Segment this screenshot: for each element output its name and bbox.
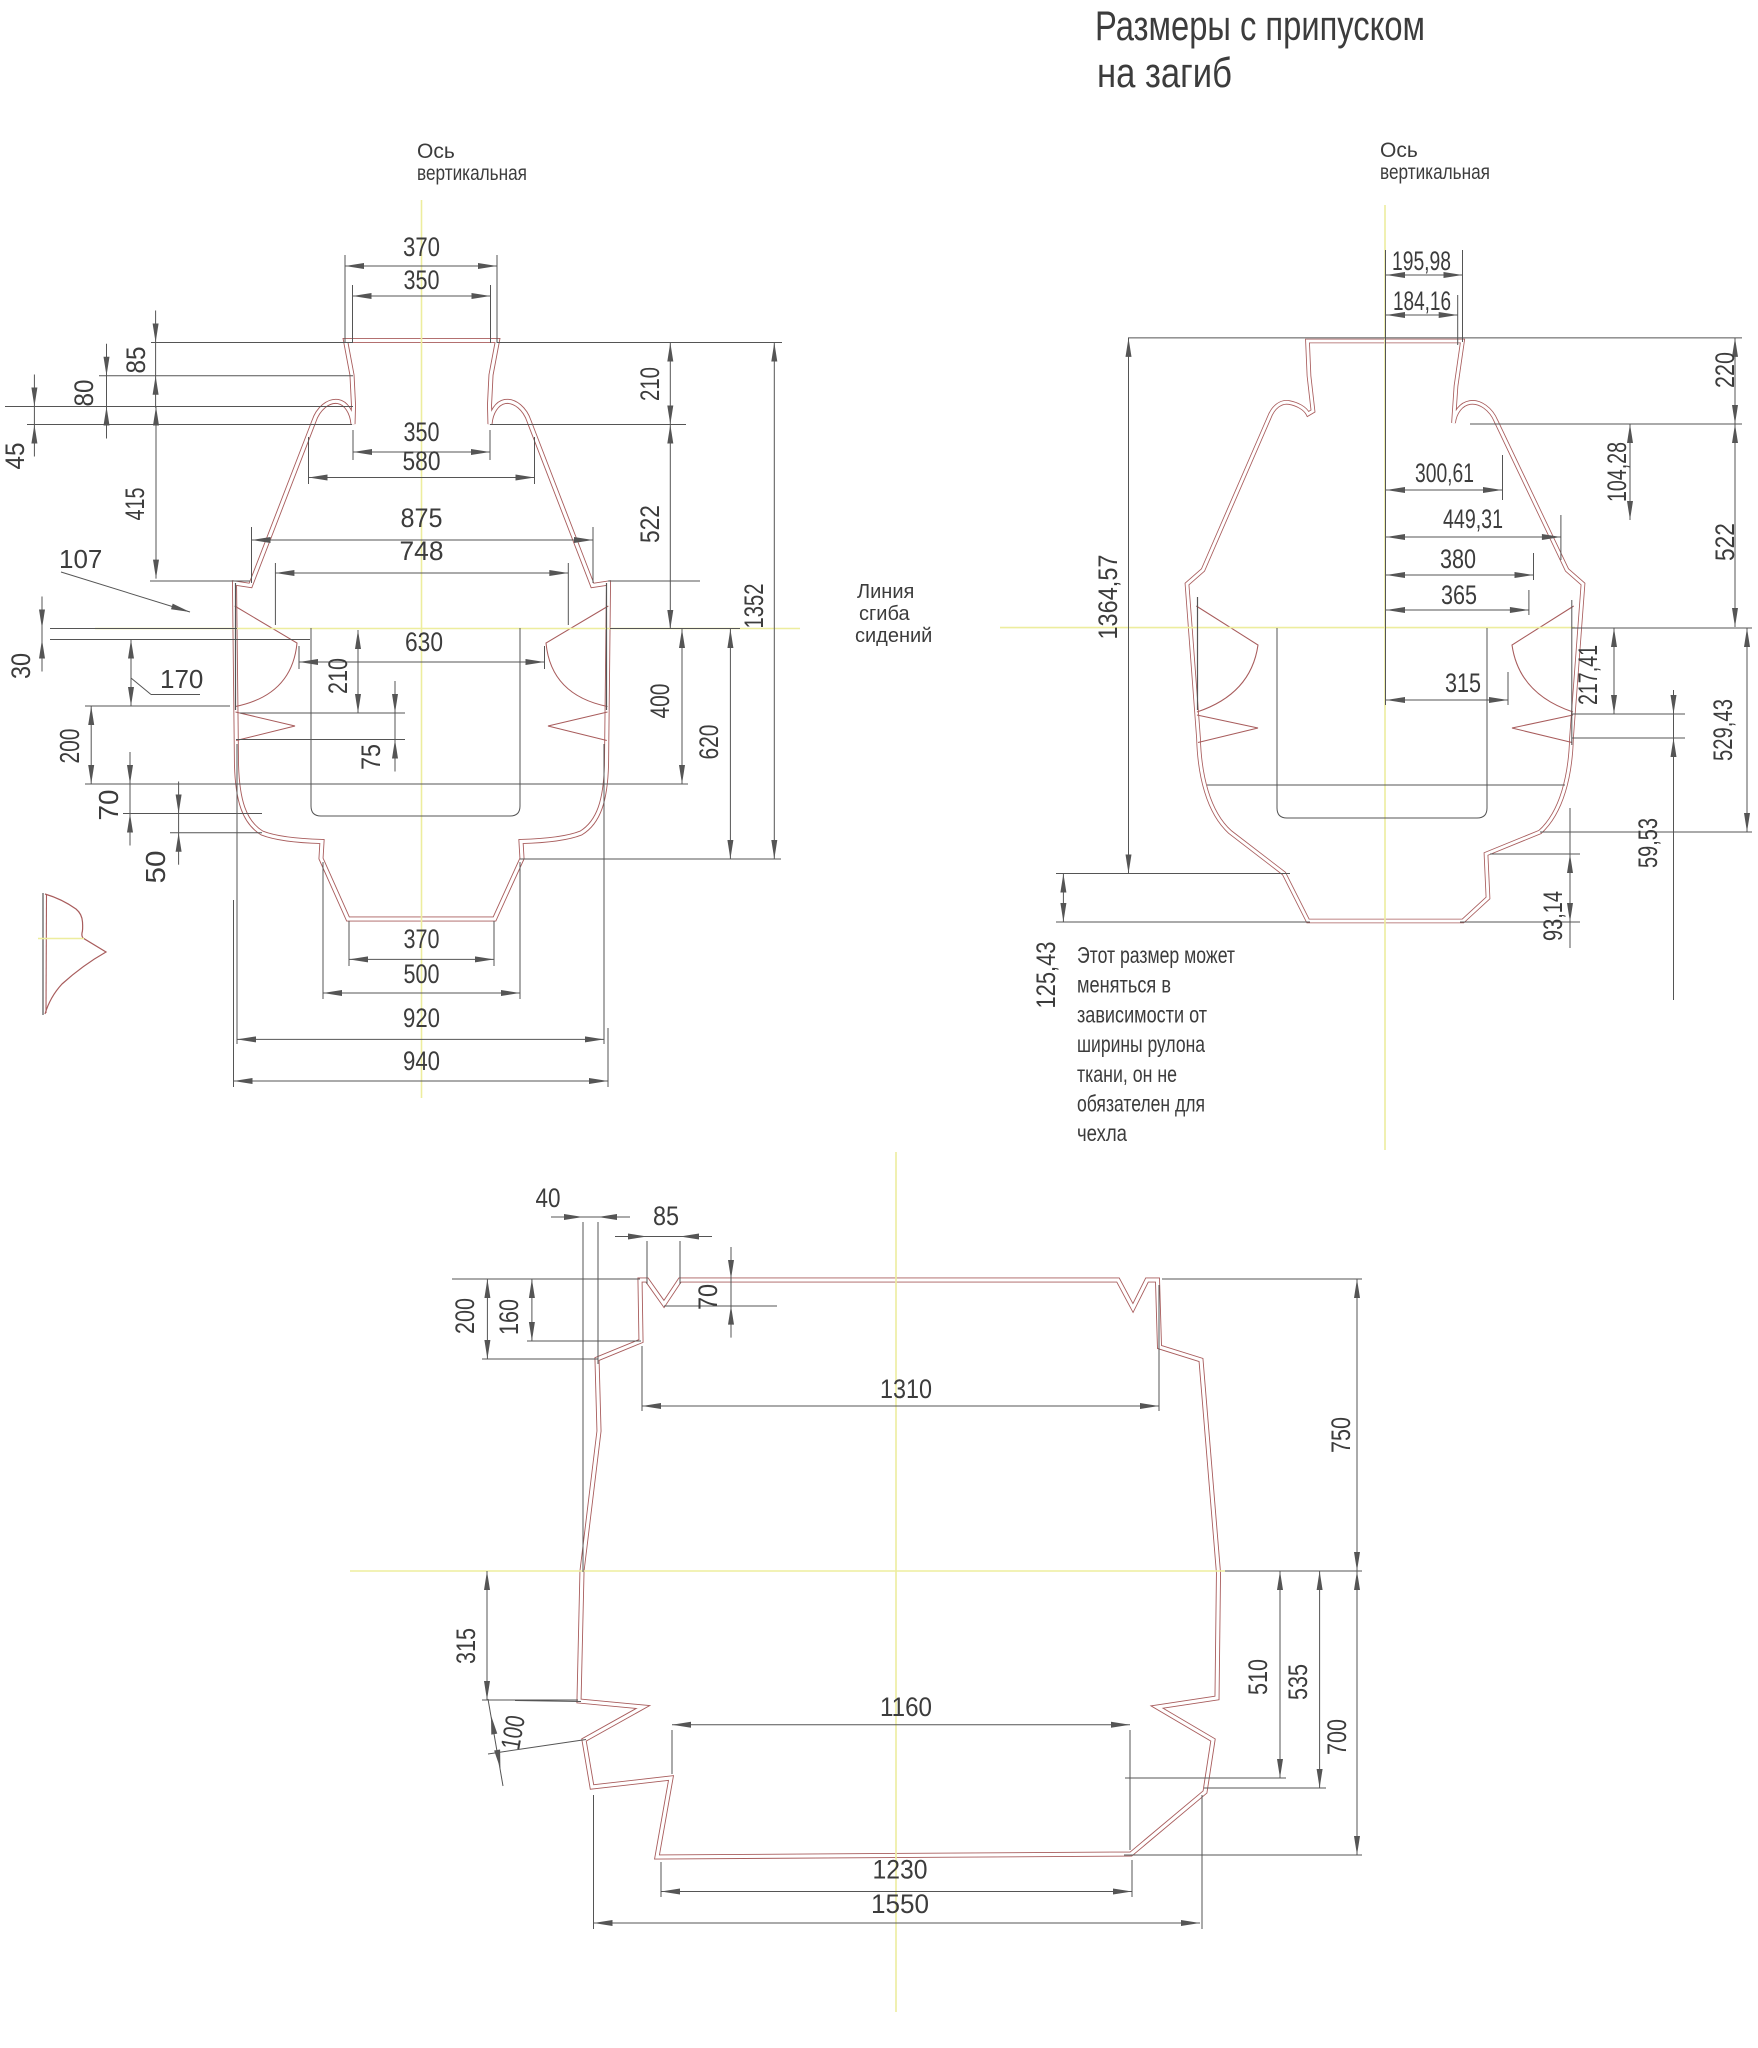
dim 184,16 — [1386, 314, 1458, 316]
dim 875 — [252, 539, 594, 541]
svg-text:630: 630 — [405, 627, 443, 657]
dim 200 bottom — [486, 1279, 488, 1359]
dim 522 rp — [1734, 424, 1736, 627]
right pattern inner panel — [1277, 628, 1487, 818]
svg-text:Ось: Ось — [417, 140, 455, 163]
dim 1160 — [672, 1724, 1130, 1726]
dim 75 inner — [394, 713, 396, 740]
svg-text:Размеры с припуском: Размеры с припуском — [1095, 2, 1425, 49]
svg-text:зависимости от: зависимости от — [1077, 1001, 1207, 1027]
left pattern vertical axis — [421, 200, 423, 1098]
svg-text:сгиба: сгиба — [859, 603, 910, 625]
svg-text:вертикальная: вертикальная — [1380, 161, 1490, 184]
svg-text:200: 200 — [450, 1298, 480, 1334]
svg-text:940: 940 — [403, 1046, 440, 1076]
svg-text:1230: 1230 — [873, 1855, 928, 1885]
svg-text:1310: 1310 — [880, 1374, 932, 1404]
svg-text:чехла: чехла — [1077, 1120, 1127, 1146]
right pattern outline — [1187, 341, 1583, 921]
svg-text:522: 522 — [635, 505, 665, 543]
svg-text:104,28: 104,28 — [1602, 442, 1632, 502]
dim 70 left — [129, 784, 131, 814]
dim 449,31 — [1386, 536, 1561, 538]
dim 59,53 — [1673, 690, 1675, 1000]
dim 350 neck — [353, 451, 490, 453]
dim 50 left — [178, 814, 180, 833]
svg-text:300,61: 300,61 — [1415, 458, 1474, 488]
dim 210 right — [669, 343, 671, 425]
dim 350 top — [353, 295, 491, 297]
left pattern right dart — [546, 606, 608, 741]
svg-text:220: 220 — [1710, 352, 1740, 388]
dim 748 — [275, 572, 568, 574]
svg-text:920: 920 — [403, 1003, 440, 1033]
small crescent piece — [42, 893, 44, 1015]
svg-text:75: 75 — [356, 744, 386, 770]
left pattern inner panel — [311, 628, 520, 816]
dim 93,14 — [1571, 600, 1573, 745]
dim 70 bottom — [730, 1279, 732, 1306]
svg-text:748: 748 — [400, 536, 444, 566]
svg-text:875: 875 — [401, 503, 443, 533]
dim 380 — [1386, 574, 1534, 576]
right pattern right dart — [1512, 606, 1574, 743]
dim 535 — [1319, 1571, 1321, 1788]
svg-text:210: 210 — [635, 367, 665, 401]
svg-text:750: 750 — [1326, 1417, 1356, 1453]
left pattern left dart — [235, 606, 297, 741]
svg-text:80: 80 — [69, 380, 99, 407]
svg-text:350: 350 — [404, 417, 440, 447]
svg-text:184,16: 184,16 — [1393, 286, 1451, 316]
dim 920 bottom — [237, 1038, 604, 1040]
svg-text:ткани, он не: ткани, он не — [1077, 1061, 1177, 1087]
left ear mark — [235, 583, 237, 710]
svg-text:меняться в: меняться в — [1077, 972, 1171, 998]
svg-text:195,98: 195,98 — [1392, 246, 1451, 276]
right pattern left dart — [1196, 606, 1258, 743]
svg-text:535: 535 — [1283, 1664, 1313, 1700]
dim 1364,57 — [1128, 338, 1130, 874]
right pattern fold line — [1000, 627, 1575, 629]
svg-text:100: 100 — [495, 1713, 530, 1752]
dim 1230 — [661, 1891, 1132, 1893]
svg-text:45: 45 — [0, 443, 30, 470]
right ear mark — [606, 583, 608, 710]
svg-text:370: 370 — [404, 924, 440, 954]
svg-text:315: 315 — [1445, 668, 1481, 698]
dim 630 — [299, 661, 545, 663]
svg-text:Линия: Линия — [857, 581, 914, 603]
dim 200 left — [90, 706, 92, 784]
dim 170 left — [130, 640, 132, 707]
dim 1550 — [594, 1922, 1201, 1924]
extension lines bottom pattern — [582, 1222, 584, 1572]
svg-text:70: 70 — [93, 790, 124, 821]
svg-text:125,43: 125,43 — [1031, 942, 1061, 1009]
dim 510 — [1279, 1571, 1281, 1778]
svg-text:107: 107 — [59, 544, 102, 574]
svg-text:500: 500 — [404, 959, 440, 989]
dim 365 — [1386, 609, 1529, 611]
right pattern chord line — [1207, 784, 1565, 786]
left pattern outline — [235, 341, 609, 920]
svg-text:Этот размер может: Этот размер может — [1077, 942, 1235, 968]
dim 80 left — [106, 376, 108, 407]
svg-text:30: 30 — [6, 653, 36, 679]
svg-text:вертикальная: вертикальная — [417, 162, 527, 185]
svg-text:217,41: 217,41 — [1573, 645, 1603, 705]
dim 370 top — [345, 265, 497, 267]
svg-text:85: 85 — [653, 1201, 679, 1231]
svg-text:415: 415 — [120, 488, 150, 521]
svg-text:350: 350 — [404, 265, 440, 295]
svg-text:85: 85 — [121, 347, 151, 374]
svg-text:510: 510 — [1243, 1659, 1273, 1695]
dim 100 dart — [488, 1699, 503, 1786]
svg-text:сидений: сидений — [855, 625, 932, 647]
dim 400 right — [681, 629, 683, 784]
svg-text:522: 522 — [1710, 523, 1740, 561]
svg-text:59,53: 59,53 — [1633, 818, 1663, 868]
dim 415 left — [155, 407, 157, 579]
extension lines right pattern — [1128, 337, 1742, 339]
svg-text:Ось: Ось — [1380, 139, 1418, 162]
dim 620 right — [729, 629, 731, 859]
dim 195,98 — [1386, 274, 1463, 276]
svg-text:380: 380 — [1440, 544, 1476, 574]
dim 522 right — [669, 425, 671, 630]
dim 500 bottom — [323, 992, 520, 994]
dim 580 — [309, 477, 535, 479]
svg-text:70: 70 — [693, 1284, 723, 1310]
dim 217,41 — [1613, 628, 1615, 714]
svg-text:на загиб: на загиб — [1097, 49, 1232, 96]
bottom pattern vertical axis — [895, 1152, 897, 2012]
dim 210 inner — [357, 630, 359, 713]
dim 700 — [1356, 1571, 1358, 1855]
svg-text:1160: 1160 — [880, 1692, 932, 1722]
svg-text:449,31: 449,31 — [1443, 504, 1503, 534]
dim 85 left — [155, 343, 157, 376]
svg-text:160: 160 — [494, 1299, 524, 1335]
bottom pattern fold line — [350, 1570, 1225, 1572]
svg-text:400: 400 — [645, 684, 675, 719]
svg-text:200: 200 — [54, 729, 85, 764]
crescent centre line — [38, 938, 84, 940]
svg-text:370: 370 — [403, 232, 440, 262]
dim 1352 right — [773, 343, 775, 860]
svg-text:1550: 1550 — [871, 1889, 929, 1919]
svg-text:700: 700 — [1322, 1719, 1352, 1755]
dim 160 bottom — [531, 1279, 533, 1341]
svg-text:ширины рулона: ширины рулона — [1077, 1031, 1205, 1057]
svg-text:315: 315 — [451, 1628, 481, 1664]
dim 1310 — [642, 1405, 1159, 1407]
svg-text:1364,57: 1364,57 — [1093, 555, 1123, 640]
svg-text:50: 50 — [140, 851, 171, 884]
dim 750 — [1356, 1279, 1358, 1571]
dim 370 bottom — [349, 958, 494, 960]
dim 45 left — [33, 407, 35, 425]
svg-text:93,14: 93,14 — [1538, 891, 1568, 941]
svg-text:580: 580 — [403, 446, 441, 476]
dim 300,61 — [1386, 489, 1502, 491]
dim 315 bottom — [486, 1571, 488, 1700]
dim 529,43 — [1746, 628, 1748, 832]
dim 30 left — [41, 629, 43, 640]
svg-text:40: 40 — [536, 1183, 561, 1213]
dim 85 bottom — [647, 1236, 680, 1238]
dim 940 bottom — [234, 1080, 609, 1082]
svg-text:210: 210 — [323, 658, 353, 694]
extension lines left pattern — [151, 342, 352, 344]
svg-text:620: 620 — [694, 725, 724, 760]
dim 315 — [1386, 699, 1508, 701]
svg-text:1352: 1352 — [739, 584, 769, 629]
left pattern fold line — [95, 628, 800, 630]
dim 125,43 — [1062, 874, 1064, 923]
svg-text:529,43: 529,43 — [1708, 699, 1738, 761]
right pattern left ear mark — [1197, 597, 1199, 710]
bottom pattern outline — [579, 1280, 1219, 1857]
dim 40 — [583, 1216, 598, 1218]
svg-text:365: 365 — [1441, 580, 1477, 610]
dim 104,28 — [1629, 424, 1631, 520]
dim 220 right — [1734, 338, 1736, 424]
svg-text:170: 170 — [160, 664, 203, 694]
right pattern vertical axis — [1384, 205, 1386, 1150]
svg-text:обязателен для: обязателен для — [1077, 1091, 1205, 1117]
